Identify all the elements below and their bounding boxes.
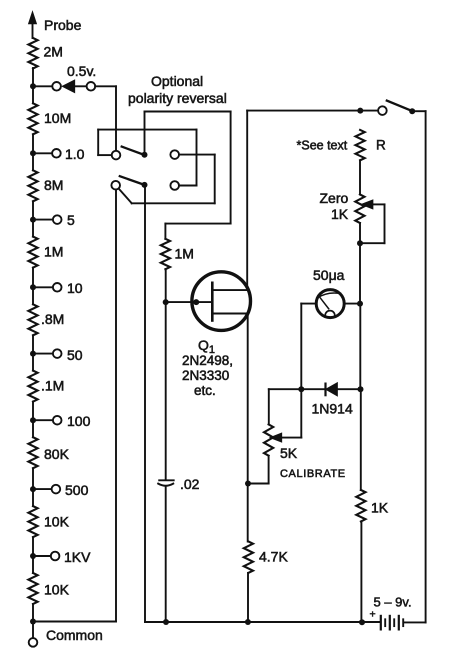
svg-text:80K: 80K (44, 446, 70, 462)
meter M1 scale arc (318, 293, 341, 298)
svg-text:1M: 1M (175, 246, 194, 262)
node Common and terminal (29, 604, 103, 647)
label 50ua (313, 267, 345, 283)
bottom negative rail (145, 619, 379, 625)
cross wire lower-left contact to upper-right contact (119, 155, 215, 204)
switch S1b pole (142, 182, 148, 188)
resistor 1M (divider) (28, 237, 63, 268)
wire main line meter junction to diode row (359, 304, 361, 390)
svg-text:50: 50 (67, 347, 83, 363)
switch S1a blade (122, 147, 145, 156)
transistor Q1 source lead (212, 313, 247, 315)
wire and tap 1KV (30, 537, 91, 573)
svg-text:10M: 10M (44, 110, 71, 126)
svg-text:.1M: .1M (41, 378, 64, 394)
resistor .8M (28, 304, 64, 335)
switch S1a pole (142, 152, 148, 158)
resistor 2M (28, 38, 63, 69)
resistor 10K (lower) (28, 573, 69, 604)
svg-text:1N914: 1N914 (312, 401, 353, 417)
svg-text:Probe: Probe (44, 17, 82, 33)
diode D1 1N914 (312, 384, 353, 417)
meter M1 pivot (325, 311, 335, 316)
wire diode junction down to 1K (360, 389, 362, 490)
wire diode row to 5K pot top (268, 389, 270, 424)
svg-text:.02: .02 (180, 476, 200, 492)
wire meter right terminal to main line (344, 301, 363, 307)
svg-text:polarity reversal: polarity reversal (128, 90, 227, 106)
wire and tap 50 (30, 335, 83, 370)
svg-text:2M: 2M (44, 44, 63, 60)
switch S2 blade (387, 101, 412, 111)
resistor 1K (meter shunt) (356, 490, 388, 522)
svg-text:1K: 1K (331, 206, 349, 222)
switch S2 contact (378, 106, 387, 115)
cross wire upper-left contact to lower-right contact (98, 130, 196, 186)
resistor 4.7K (244, 542, 289, 573)
wire and tap 10 (30, 268, 83, 305)
svg-text:1K: 1K (371, 500, 389, 516)
svg-text:5: 5 (67, 212, 75, 228)
switch S1 right contacts (170, 150, 179, 190)
label CALIBRATE (280, 468, 346, 480)
resistor .1M (28, 371, 64, 402)
svg-text:10K: 10K (44, 582, 70, 598)
resistor 10K (upper) (28, 506, 69, 537)
svg-text:2N3330: 2N3330 (182, 368, 229, 383)
svg-text:4.7K: 4.7K (259, 549, 288, 565)
potentiometer Zero 1K (320, 190, 365, 223)
label Optional polarity reversal (128, 73, 227, 106)
resistor 1M (gate) (161, 239, 194, 269)
svg-text:500: 500 (65, 482, 89, 498)
wire capacitor to bottom rail (165, 487, 167, 622)
wiper of Zero pot (360, 201, 385, 244)
wire top rail drain to range switch (247, 108, 378, 114)
svg-text:1M: 1M (44, 244, 63, 260)
wire meter left terminal down to calibrate junction (301, 304, 316, 390)
svg-text:5K: 5K (280, 445, 298, 461)
capacitor .02 (158, 476, 199, 492)
switch S1b blade (120, 176, 145, 185)
svg-text:5 – 9v.: 5 – 9v. (374, 595, 412, 610)
node gate junction (163, 299, 169, 305)
switch S1b lower-left contact (111, 181, 120, 190)
wire 1K bottom to rail (360, 522, 362, 623)
wire Common node to lower-left switch contact (33, 190, 116, 622)
wire S1a pole to 1M resistor top (gate feed rail) (145, 112, 231, 224)
wire and tap 100 (30, 402, 91, 438)
meter M1 50ua body (316, 290, 344, 318)
wire diode row (269, 386, 364, 392)
svg-text:Common: Common (46, 627, 103, 643)
wire 1M bottom to gate node (165, 269, 167, 302)
resistor 80K (28, 437, 69, 468)
battery BT1 5-9v (370, 595, 412, 630)
svg-text:*See text: *See text (297, 138, 348, 152)
wire R bottom to Zero pot (359, 160, 361, 194)
potentiometer 5K (264, 424, 298, 461)
probe terminal with arrow (29, 13, 81, 38)
svg-text:10: 10 (67, 280, 83, 296)
resistor R (356, 130, 387, 160)
svg-text:CALIBRATE: CALIBRATE (280, 468, 346, 480)
wiper of 5K pot (271, 389, 301, 441)
transistor Q1 drain lead (212, 289, 247, 291)
wire Q1 drain up to top rail (246, 111, 248, 291)
node Zero pot bottom junction (357, 223, 363, 304)
svg-text:100: 100 (67, 413, 91, 429)
svg-text:1KV: 1KV (64, 549, 91, 565)
wire S2 pole to right rail and down to battery + (404, 111, 426, 622)
wire and tap 500 (30, 468, 89, 506)
wire and tap 5 (30, 201, 75, 236)
svg-text:50μa: 50μa (313, 267, 345, 283)
wire gate node down to capacitor (165, 302, 167, 479)
svg-text:2N2498,: 2N2498, (182, 353, 233, 368)
wire and tap 1.0 (30, 134, 85, 170)
resistor 10M (28, 103, 71, 134)
svg-text:R: R (376, 138, 386, 153)
transistor Q1 channel bar (211, 283, 214, 321)
svg-text:1.0: 1.0 (65, 146, 85, 162)
svg-text:0.5v.: 0.5v. (67, 63, 96, 79)
svg-text:.8M: .8M (41, 311, 64, 327)
wire chain node 0.5v region (30, 68, 36, 103)
meter M1 needle (320, 298, 328, 309)
svg-text:+: + (370, 609, 376, 621)
wire 5K bottom to source line (248, 456, 269, 484)
switch S1a upper-left contact (112, 151, 121, 160)
tap 0.5v (test point with plug arrow) (33, 63, 96, 92)
svg-text:Zero: Zero (320, 190, 349, 206)
svg-text:10K: 10K (44, 514, 70, 530)
svg-text:etc.: etc. (194, 383, 216, 398)
svg-text:Optional: Optional (151, 73, 203, 89)
label *See text (297, 138, 348, 152)
wire tap 0.5v to polarity switch upper-left contact (95, 86, 116, 150)
wire S1b pole down to bottom negative rail (144, 185, 146, 622)
transistor Q1 circle (192, 272, 251, 331)
wire 4.7K bottom to rail (247, 573, 249, 622)
wire Q1 source down to 4.7K (245, 314, 251, 542)
wire gate node to Q1 gate (166, 299, 213, 305)
switch S2 pole (409, 108, 415, 114)
wire top-left rail corner down to 1M top lead (164, 224, 166, 239)
svg-text:8M: 8M (44, 177, 63, 193)
labels Q1 2N2498 2N3330 etc. (182, 337, 233, 398)
resistor 8M (28, 170, 63, 201)
